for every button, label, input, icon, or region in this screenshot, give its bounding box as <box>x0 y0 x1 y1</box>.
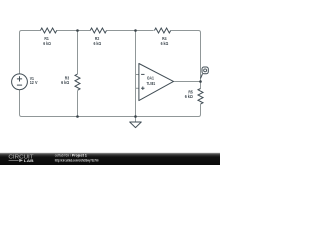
svg-text:6 kΩ: 6 kΩ <box>61 80 70 85</box>
op-amp OA1 <box>139 64 174 101</box>
junction dot R3 bottom <box>76 115 79 118</box>
wire: top rail R2 to node B <box>107 30 136 32</box>
svg-text:R1: R1 <box>44 36 49 41</box>
resistor R2 <box>90 28 106 46</box>
wire: left rail bottom segment (V1 bottom to bottom rail) <box>20 90 22 117</box>
wire: node B column down to bottom rail <box>135 31 137 117</box>
wire: right rail bottom (bottom rail corner up to R5) <box>199 104 201 116</box>
wire: op-amp output to output node <box>174 81 201 83</box>
resistor R3 <box>61 74 80 90</box>
node A junction dot <box>76 29 79 32</box>
wire: stub to op-amp inverting input pin <box>136 74 139 76</box>
svg-text:6 kΩ: 6 kΩ <box>161 41 169 46</box>
wire: top rail R1 to node A <box>56 30 77 32</box>
ground <box>130 117 142 128</box>
svg-text:LAB: LAB <box>24 158 34 163</box>
wire: top rail node B to R4 <box>136 30 154 32</box>
output port OUT <box>201 67 209 79</box>
svg-text:6 kΩ: 6 kΩ <box>43 41 51 46</box>
junction dot ground node <box>134 115 137 118</box>
wire: top rail node A to R2 <box>78 30 91 32</box>
wire: left rail top segment (V1 top to top rail corner) <box>20 31 22 74</box>
resistor R5 <box>185 89 203 105</box>
wire: top rail R4 to top-right corner and right rail down to output node <box>171 31 201 82</box>
svg-text:TL081: TL081 <box>147 81 156 86</box>
output node junction dot <box>199 80 202 83</box>
voltage source V1 <box>12 74 38 90</box>
footer logo CircuitLab <box>8 155 34 163</box>
resistor R1 <box>40 28 56 46</box>
wire: node A down to R3 <box>77 31 79 75</box>
wire: top rail from left corner to R1 <box>22 30 41 32</box>
svg-text:OA1: OA1 <box>147 75 155 80</box>
svg-text:6 kΩ: 6 kΩ <box>185 94 194 99</box>
wire: R3 bottom to bottom rail <box>77 91 79 117</box>
wire: bottom rail <box>22 116 199 118</box>
svg-text:R4: R4 <box>162 36 167 41</box>
footer url text <box>55 159 99 163</box>
wire: R5 top to output node <box>200 82 202 89</box>
svg-text:ceffa6769 / Project 1: ceffa6769 / Project 1 <box>55 154 87 158</box>
resistor R4 <box>154 28 170 46</box>
wire: stub to op-amp non-inverting input pin <box>136 87 139 89</box>
svg-text:6 kΩ: 6 kΩ <box>94 41 102 46</box>
svg-text:R2: R2 <box>95 36 100 41</box>
svg-text:12 V: 12 V <box>30 80 38 85</box>
node B junction dot <box>134 29 137 32</box>
svg-text:http://circuitlab.com/c/cfa53w: http://circuitlab.com/c/cfa53wy73z7h6 <box>55 159 99 163</box>
